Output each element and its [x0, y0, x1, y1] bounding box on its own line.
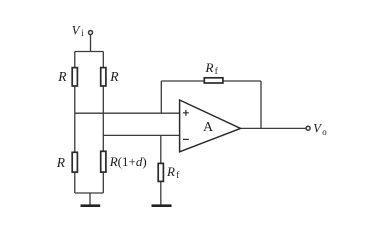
wire bridge top bar — [75, 51, 104, 53]
op-amp minus mark — [183, 138, 189, 140]
svg-text:R(1+d): R(1+d) — [109, 154, 147, 169]
svg-text:o: o — [322, 127, 327, 137]
terminal Vo — [306, 126, 310, 130]
wire Vi stem — [90, 35, 92, 52]
wire bridge bottom bar — [75, 192, 104, 194]
svg-text:V: V — [313, 122, 322, 136]
ground right — [152, 204, 172, 207]
svg-text:f: f — [176, 170, 179, 180]
wire feedback left vertical — [160, 81, 162, 113]
svg-text:f: f — [215, 66, 218, 76]
svg-text:V: V — [72, 24, 81, 38]
svg-text:i: i — [81, 28, 84, 38]
svg-text:R: R — [109, 69, 119, 84]
terminal Vi — [89, 31, 93, 35]
wire op-amp plus input — [75, 112, 180, 114]
wire output — [241, 127, 307, 129]
wire op-amp minus input — [103, 134, 179, 136]
resistor R top-left — [72, 68, 77, 86]
wire feedback right vertical — [260, 81, 262, 128]
resistor R(1+d) bottom-right — [101, 151, 106, 172]
op-amp A — [180, 100, 241, 152]
wire ground stem center — [89, 193, 91, 205]
op-amp plus mark — [183, 110, 189, 116]
wire left branch — [74, 52, 76, 194]
wire right branch — [102, 52, 104, 194]
wire Rf ground stem — [160, 135, 162, 204]
svg-text:R: R — [56, 155, 66, 170]
ground left — [81, 204, 101, 207]
resistor Rf feedback — [204, 78, 223, 83]
resistor R bottom-left — [72, 152, 77, 172]
svg-text:R: R — [166, 164, 175, 179]
wire feedback top — [161, 80, 261, 82]
resistor R top-right — [101, 68, 106, 86]
resistor Rf to ground — [158, 163, 163, 181]
svg-text:R: R — [57, 69, 67, 84]
svg-text:A: A — [203, 120, 214, 135]
svg-text:R: R — [205, 60, 214, 75]
